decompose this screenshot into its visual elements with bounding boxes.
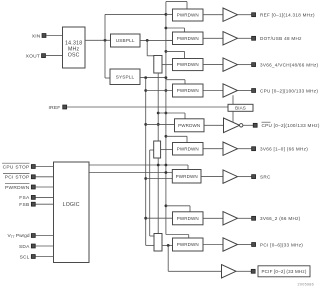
wire PWRDWN1 control loop — [166, 1, 187, 3]
wire LOGIC control line 1 — [89, 164, 188, 166]
svg-text:SCL: SCL — [20, 254, 30, 260]
wire buffer to pin row 7 — [238, 176, 252, 178]
wire PWRDWN9 control loop — [166, 234, 189, 236]
svg-text:3V66_2 (66 MHz): 3V66_2 (66 MHz) — [260, 216, 301, 221]
wire buffer to pin row 8 — [238, 217, 252, 219]
node PCI/PCIF junction — [167, 244, 170, 247]
wire divider chain lower — [157, 158, 159, 234]
node SYSPLL output junction — [144, 76, 147, 79]
svg-text:PCI [0–6](33 MHz): PCI [0–6](33 MHz) — [260, 242, 303, 247]
wire PWRDWN3 to buffer — [203, 64, 223, 66]
wire PWRDWN8 control loop — [166, 205, 190, 207]
wire VTT Pwrgd to LOGIC — [35, 235, 53, 237]
svg-text:FSB: FSB — [19, 202, 29, 208]
wire PCIF input — [168, 270, 221, 272]
buffer row 3 — [223, 58, 238, 71]
powerdown gate PWRDWN6 — [173, 143, 204, 156]
wire PWRDWN2 control loop — [166, 27, 185, 29]
node V1 CPU# branch — [144, 123, 147, 126]
wire SDA to LOGIC — [35, 245, 53, 247]
output label box PCIF — [258, 266, 310, 277]
svg-text:OSC: OSC — [68, 53, 80, 59]
svg-text:3V66 [1–0] (66 MHz): 3V66 [1–0] (66 MHz) — [260, 147, 308, 152]
output pin PCI — [252, 243, 256, 247]
wire PWRDWN6 control loop — [166, 135, 187, 137]
svg-text:PWRDWN: PWRDWN — [177, 216, 199, 221]
wire buffer to pin row 3 — [238, 64, 252, 66]
node V1 CPU branch — [144, 89, 147, 92]
wire PWRDWN7 to buffer — [201, 176, 223, 178]
buffer row 2 — [223, 32, 238, 45]
wire IREF to BIAS — [67, 106, 228, 108]
node bus REF tap — [165, 13, 168, 16]
bus vertical V2 — [149, 150, 151, 236]
wire BIAS to CPU# buffer — [232, 111, 234, 122]
node bus row2 tap — [165, 27, 168, 30]
svg-text:REF [0–1](14.318 MHz): REF [0–1](14.318 MHz) — [260, 13, 315, 18]
wire USBPLL drop to divider 1 — [146, 40, 148, 55]
wire CPU STOP to LOGIC — [35, 166, 53, 168]
wire XOUT to OSC — [46, 55, 63, 57]
logic block LOGIC — [54, 162, 90, 263]
wire FSB to LOGIC — [35, 203, 53, 205]
node V1 3V66_2 branch — [144, 217, 147, 220]
wire PWRDWN9 to buffer — [203, 244, 223, 246]
node bus row3 tap — [165, 50, 168, 53]
wire PWRDWN4 control loop — [166, 79, 185, 81]
wire PWRDWN5 control loop — [158, 112, 185, 114]
wire USBPLL output — [140, 39, 173, 41]
node V1 SRC branch — [144, 177, 147, 180]
buffer row 8 — [223, 212, 238, 225]
wire XIN to OSC — [46, 35, 62, 37]
wire clock input row 6 — [161, 149, 173, 151]
node bus row4 tap — [165, 89, 168, 92]
wire clock input row 8 — [146, 217, 173, 219]
buffer row 9 — [223, 238, 238, 251]
svg-text:MHz: MHz — [68, 46, 80, 52]
wire clock input row 3 — [162, 64, 173, 66]
svg-text:PWRDWN: PWRDWN — [177, 88, 199, 93]
svg-text:PWRDWN: PWRDWN — [177, 62, 199, 67]
svg-text:CPU STOP: CPU STOP — [3, 164, 30, 170]
buffer row 10 PCIF — [222, 265, 237, 278]
powerdown gate PWRDWN3 — [173, 59, 204, 71]
bus main vertical — [165, 2, 167, 235]
svg-text:2005986: 2005986 — [298, 283, 314, 287]
output pin REF — [252, 13, 256, 17]
svg-text:IREF: IREF — [49, 105, 61, 111]
powerdown gate PWRDWN9 — [173, 238, 204, 251]
svg-text:PWRDWN: PWRDWN — [177, 242, 199, 247]
wire clock input row 9 — [162, 244, 173, 246]
svg-text:VTT Pwrgd: VTT Pwrgd — [7, 233, 29, 239]
wire clock input row 4 — [146, 90, 173, 92]
wire LOGIC control line 2 — [89, 172, 172, 174]
wire PWRDWN4 to buffer — [203, 90, 223, 92]
powerdown gate PWRDWN4 — [173, 84, 204, 97]
node bus SYSPLL tap — [165, 76, 168, 79]
svg-text:PWRDWN: PWRDWN — [177, 146, 199, 151]
divider block DIV2 — [154, 141, 161, 158]
wire OSC output — [85, 39, 111, 41]
wire divider chain upper — [157, 73, 159, 141]
wire SCL to LOGIC — [35, 256, 53, 258]
node bus logic2 tap — [165, 171, 168, 174]
wire PCIF drop — [167, 245, 169, 271]
oscillator OSC 14.318 MHz — [63, 27, 86, 68]
divider block DIV1 — [154, 56, 162, 74]
powerdown gate PWRDWN5 — [175, 119, 205, 132]
svg-text:XIN: XIN — [32, 33, 41, 39]
wire clock input row 7 — [146, 178, 173, 180]
svg-text:PCIF [0–2] (33 MHz): PCIF [0–2] (33 MHz) — [261, 269, 306, 274]
svg-text:CPU [0–2](100/133 MHz): CPU [0–2](100/133 MHz) — [260, 88, 318, 93]
svg-text:PWRDWN: PWRDWN — [176, 174, 198, 179]
svg-text:LOGIC: LOGIC — [63, 202, 80, 208]
wire PWRDWN1 to buffer — [203, 14, 223, 16]
bias generator BIAS — [228, 104, 253, 111]
node bus row5 tap — [165, 112, 168, 115]
wire buffer to pin row 2 — [238, 37, 252, 39]
output pin 3V66 — [252, 147, 256, 151]
wire CPU buffer to BIAS — [232, 95, 234, 104]
buffer row 6 — [223, 142, 238, 155]
node bus row8 tap — [165, 204, 168, 207]
buffer row 4 — [223, 84, 238, 97]
wire PWRDWN2 to buffer — [203, 37, 223, 39]
wire OSC down to SYSPLL — [104, 40, 106, 78]
svg-text:BIAS: BIAS — [235, 105, 246, 110]
wire PWRDWN3 control loop — [166, 50, 185, 52]
inverting buffer row 5 — [224, 118, 240, 133]
wire PWRDWN6 to buffer — [203, 148, 223, 150]
svg-text:PWRDWN: PWRDWN — [177, 13, 199, 18]
output pin PCIF — [251, 269, 255, 273]
wire REF top run — [105, 13, 166, 15]
svg-text:SDA: SDA — [19, 244, 30, 250]
wire PWRDWN8 to buffer — [203, 217, 223, 219]
wire buffer to pin row 5 — [243, 124, 253, 126]
wire buffer to pin row 4 — [238, 90, 252, 92]
svg-text:PWRDWN: PWRDWN — [177, 36, 199, 41]
buffer row 1 — [223, 8, 238, 21]
svg-text:3V66_4/VCH(48/66 MHz): 3V66_4/VCH(48/66 MHz) — [260, 62, 319, 67]
node chain logic line tap — [157, 164, 160, 167]
pll USBPLL — [111, 34, 141, 47]
powerdown gate PWRDWN2 — [173, 32, 204, 45]
wire OSC riser to REF row — [104, 14, 106, 40]
node bus row6 tap — [165, 135, 168, 138]
pll SYSPLL — [110, 69, 140, 85]
svg-text:PCI STOP: PCI STOP — [5, 175, 30, 181]
powerdown gate PWRDWN7 — [172, 170, 201, 184]
svg-text:CPU [0–2](100/133 MHz): CPU [0–2](100/133 MHz) — [262, 123, 320, 128]
wire SYSPLL output — [140, 77, 166, 79]
wire buffer to pin row 6 — [238, 148, 252, 150]
svg-text:USBPLL: USBPLL — [116, 38, 135, 43]
buffer row 7 — [223, 170, 238, 183]
output pin 3V66_4 — [252, 63, 256, 67]
powerdown gate PWRDWN8 — [173, 212, 204, 225]
svg-text:XOUT: XOUT — [26, 53, 40, 59]
wire clock input row 2 — [166, 39, 173, 41]
svg-text:PWRDWN: PWRDWN — [5, 185, 30, 191]
node bus logic1 tap — [165, 164, 168, 167]
wire FSA to LOGIC — [35, 196, 53, 198]
wire clock input row 1 — [166, 13, 173, 15]
output pin SRC — [252, 175, 256, 179]
node OSC output junction — [104, 39, 107, 42]
svg-text:SRC: SRC — [260, 174, 271, 179]
svg-text:FSA: FSA — [19, 195, 30, 201]
wire buffer to pin row 1 — [238, 14, 252, 16]
svg-text:DOT/USB 48 MHz: DOT/USB 48 MHz — [260, 36, 302, 41]
wire buffer to pin row 9 — [238, 244, 252, 246]
svg-text:SYSPLL: SYSPLL — [116, 75, 135, 80]
svg-text:PWRDWN: PWRDWN — [178, 123, 200, 128]
node USBPLL output junction — [146, 39, 149, 42]
powerdown gate PWRDWN1 — [173, 9, 204, 21]
node chain CPU# loop tap — [157, 112, 160, 115]
wire clock input row 5 — [146, 124, 175, 126]
wire PWRDWN5 to buffer — [204, 124, 224, 126]
node chain CPU# input tap — [157, 123, 160, 126]
wire buffer to pin PCIF — [236, 270, 251, 272]
output pin CPU — [252, 89, 256, 93]
wire PWRDWN to LOGIC — [35, 186, 53, 188]
wire PCI STOP to LOGIC — [35, 176, 53, 178]
output pin DOT — [252, 36, 256, 40]
wire PWRDWN7 control loop — [187, 165, 189, 170]
output pin 3V66_2 — [252, 216, 256, 220]
output pin CPU# [0-2] — [253, 123, 257, 127]
bus SYSPLL vertical V1 — [145, 78, 147, 246]
divider block DIV3 — [154, 234, 162, 252]
